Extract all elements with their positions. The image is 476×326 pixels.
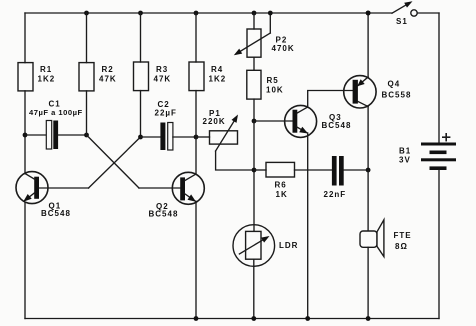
node LDR bottom rail: [251, 316, 256, 321]
speaker FTE 8 ohm: [360, 220, 412, 257]
svg-text:R1: R1: [40, 65, 52, 74]
capacitor 22nF: [324, 156, 347, 199]
wire R2 bottom to C1 junction: [86, 91, 88, 135]
wire R1 bottom to Q1 collector: [24, 91, 26, 174]
svg-text:10K: 10K: [266, 86, 284, 95]
wire P2 to R5: [253, 57, 255, 70]
node Q3 emitter bottom rail: [305, 316, 310, 321]
svg-text:1K2: 1K2: [209, 75, 227, 84]
svg-text:47K: 47K: [99, 75, 117, 84]
wire rail to R2: [86, 13, 88, 63]
svg-text:S1: S1: [396, 17, 408, 26]
svg-text:R2: R2: [102, 65, 114, 74]
wire rail to R3: [140, 13, 142, 62]
resistor R6: [266, 162, 295, 199]
svg-text:47K: 47K: [154, 75, 172, 84]
potentiometer P2 470K: [234, 13, 295, 57]
node R6 left junction: [252, 168, 257, 173]
svg-text:3V: 3V: [399, 156, 411, 165]
transistor Q3 BC548: [254, 105, 351, 137]
node 22nF speaker junction: [366, 168, 371, 173]
wire cross-couple diagonal C1 to Q2 base: [87, 135, 140, 188]
wire Q4 collector down to 22nF node: [367, 107, 369, 171]
wire Q3 base node down to R6 node: [253, 121, 255, 170]
node top rail Q4 emitter: [366, 11, 371, 16]
node C2 right junction: [194, 135, 199, 140]
node Q3 base junction: [252, 119, 257, 124]
wire junction down to speaker: [367, 170, 369, 231]
node top rail R3: [138, 11, 143, 16]
wire speaker to bottom rail: [367, 247, 369, 318]
svg-text:8Ω: 8Ω: [395, 242, 408, 251]
wire node to R6: [254, 169, 266, 171]
wire switch to right rail: [417, 12, 439, 14]
svg-text:R4: R4: [211, 65, 223, 74]
node C2 left junction: [138, 135, 143, 140]
resistor R4: [189, 62, 226, 91]
wire R4 bottom to C2 right junction: [195, 91, 197, 137]
node top rail R4: [194, 11, 199, 16]
potentiometer P1 220K: [196, 109, 238, 151]
wire C2 right lead: [173, 136, 196, 138]
wire right rail down to battery: [438, 13, 440, 143]
transistor Q4 BC558: [344, 76, 412, 108]
transistor Q1 BC548: [16, 172, 89, 218]
svg-text:B1: B1: [399, 147, 411, 156]
wire left column top (rail to R1): [24, 13, 26, 63]
wire R6 to 22nF: [295, 169, 332, 171]
node top rail P2: [252, 11, 257, 16]
svg-text:22nF: 22nF: [324, 190, 347, 199]
svg-text:R6: R6: [275, 181, 287, 190]
wire Q3 collector up and right to Q4 base: [308, 91, 353, 108]
wire R3 bottom to C2 junction: [140, 91, 142, 137]
capacitor C1: [29, 100, 83, 150]
wire Q1 emitter to bottom rail: [24, 203, 26, 319]
svg-text:BC558: BC558: [382, 91, 412, 100]
node speaker bottom rail: [366, 316, 371, 321]
resistor R2: [79, 63, 117, 91]
wire cross-couple diagonal C2 to Q1 base: [89, 137, 141, 188]
wire top rail: [25, 12, 392, 14]
resistor R3: [134, 62, 172, 91]
svg-text:FTE: FTE: [394, 231, 412, 240]
wire P1 wiper down then right to R6 node: [216, 151, 254, 170]
wire rail to R4: [195, 13, 197, 62]
node Q2 emitter bottom rail: [194, 316, 199, 321]
svg-text:BC548: BC548: [41, 209, 71, 218]
wire Q3 emitter to bottom rail: [307, 133, 309, 319]
battery B1 3V: [399, 134, 456, 170]
svg-text:1K2: 1K2: [38, 75, 56, 84]
wire 22nF right lead: [344, 169, 368, 171]
svg-text:Q4: Q4: [388, 80, 401, 89]
wire C1 left lead: [25, 134, 46, 136]
wire rail to P2: [253, 13, 255, 29]
wire bottom rail (ground return): [25, 318, 439, 320]
node C1 left junction: [23, 133, 28, 138]
resistor R1: [18, 63, 55, 91]
svg-text:1K: 1K: [276, 190, 288, 199]
wire C2 left lead: [141, 136, 161, 138]
node C1 right junction: [84, 133, 89, 138]
transistor Q2 BC548: [139, 172, 204, 218]
wire LDR to bottom rail: [253, 259, 255, 318]
svg-text:BC548: BC548: [149, 210, 179, 219]
svg-text:220K: 220K: [203, 117, 226, 126]
svg-text:47µF a 100µF: 47µF a 100µF: [29, 108, 83, 117]
resistor R5: [247, 70, 284, 99]
wire R5 bottom to Q3 base node: [253, 99, 255, 121]
node top rail switch side: [366, 11, 371, 16]
svg-text:470K: 470K: [272, 44, 295, 53]
wire C2 junction down to Q2 collector: [195, 137, 197, 174]
svg-text:LDR: LDR: [279, 241, 298, 250]
wire C1 right lead: [58, 134, 86, 136]
switch S1: [392, 1, 417, 26]
wire rail to Q4 emitter: [367, 13, 369, 77]
wire Q2 emitter to bottom rail: [195, 201, 197, 318]
svg-text:BC548: BC548: [322, 121, 352, 130]
LDR: [233, 225, 298, 267]
svg-text:R5: R5: [267, 76, 279, 85]
node top rail P2 wiper: [268, 11, 273, 16]
capacitor C2: [155, 100, 177, 150]
wire battery to bottom rail: [438, 170, 440, 319]
svg-text:22µF: 22µF: [155, 109, 177, 118]
svg-text:R3: R3: [156, 65, 168, 74]
wire R6 node down to LDR: [253, 170, 255, 231]
node top rail R2: [84, 11, 89, 16]
